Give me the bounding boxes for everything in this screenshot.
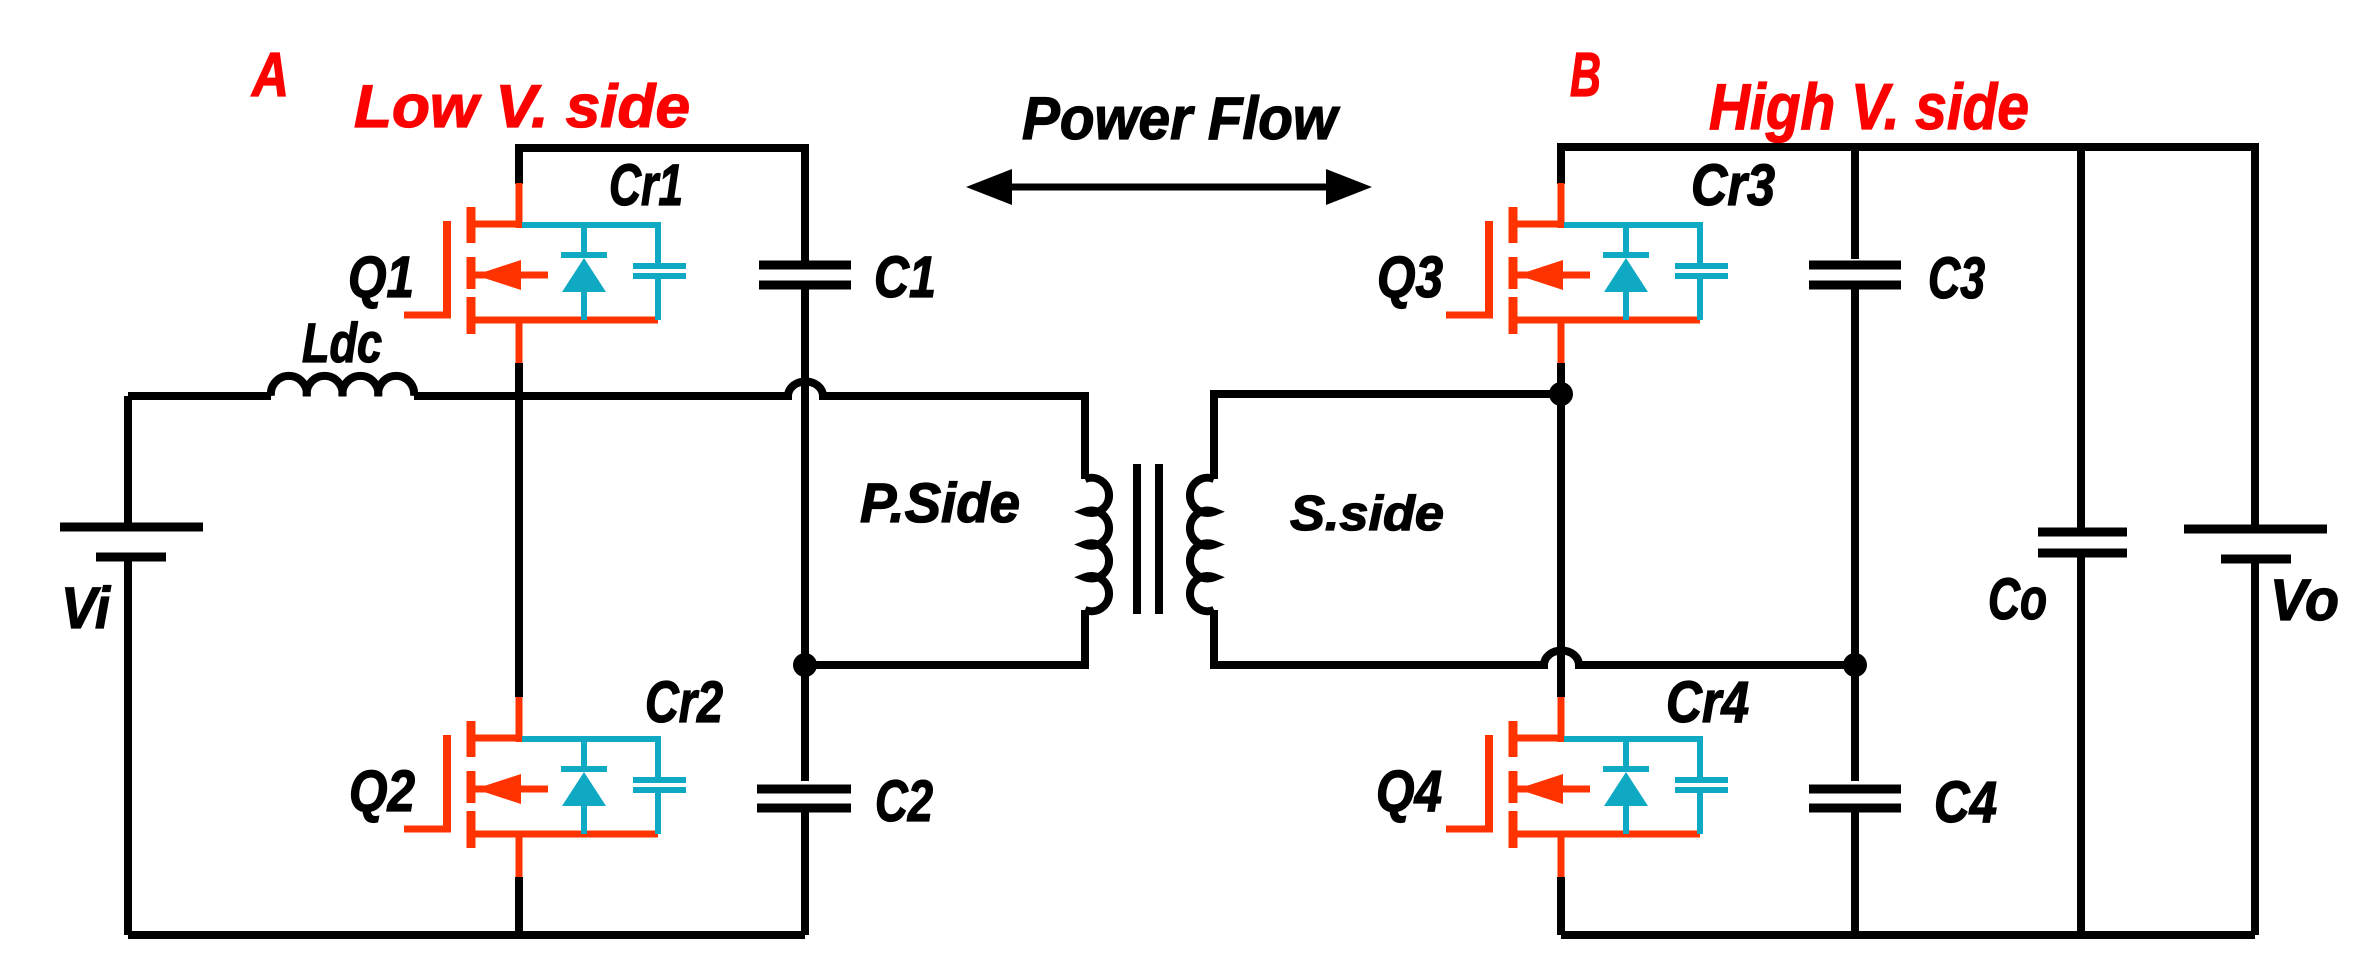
battery Vi: [60, 396, 203, 935]
wire right top rail: [1561, 147, 2255, 525]
svg-text:Ldc: Ldc: [302, 311, 382, 374]
capacitor C2: [757, 789, 851, 808]
capacitor C4: [1809, 789, 1901, 808]
wire mid rail left: [128, 392, 271, 400]
transistor Q3: [1446, 183, 1728, 363]
svg-text:B: B: [1570, 41, 1601, 110]
wire Q2 source to bottom rail: [515, 877, 523, 935]
transistor Q1: [404, 183, 686, 363]
svg-text:Cr2: Cr2: [645, 670, 723, 735]
svg-text:C1: C1: [874, 245, 936, 310]
svg-text:Vi: Vi: [61, 576, 112, 641]
inductor Ldc: [271, 376, 414, 396]
svg-text:Low V. side: Low V. side: [354, 73, 690, 140]
svg-text:Power Flow: Power Flow: [1022, 85, 1340, 152]
wire left top rail: [519, 148, 805, 261]
svg-text:Co: Co: [1988, 567, 2047, 632]
wire mid rail to primary (hop over C1-C2 branch): [414, 382, 1085, 480]
wire C1 to node, C2 branch: [801, 289, 809, 781]
transistor Q2: [404, 697, 686, 877]
svg-text:P.Side: P.Side: [860, 471, 1020, 534]
wire primary bottom: [805, 610, 1085, 665]
battery Vo: [2184, 529, 2327, 935]
wire C3 to node, C4 branch: [1851, 289, 1859, 781]
svg-text:Q1: Q1: [348, 245, 414, 310]
capacitor Co: [2038, 532, 2127, 553]
wire bottom rail right: [1561, 931, 2255, 939]
capacitor C1: [759, 265, 851, 285]
svg-text:Cr3: Cr3: [1691, 153, 1775, 218]
svg-text:C2: C2: [875, 769, 933, 834]
transformer primary winding: [1085, 478, 1109, 611]
svg-text:C3: C3: [1928, 246, 1985, 311]
svg-text:C4: C4: [1934, 770, 1997, 835]
wire bottom rail left: [128, 931, 805, 939]
capacitor C3: [1809, 265, 1901, 285]
wire Co branch top: [2077, 147, 2085, 528]
svg-text:S.side: S.side: [1290, 487, 1444, 541]
node primary-C1C2 junction: [793, 653, 817, 677]
svg-text:Q4: Q4: [1376, 759, 1442, 824]
svg-text:Cr4: Cr4: [1666, 670, 1749, 735]
wire Co to bottom rail: [2077, 557, 2085, 935]
wire C4 to bottom rail: [1851, 812, 1859, 935]
transformer core: [1137, 464, 1159, 614]
svg-text:High V. side: High V. side: [1709, 70, 2029, 143]
transistor Q4: [1446, 697, 1728, 877]
transformer secondary winding: [1190, 478, 1214, 611]
wire secondary bottom (hop over Q3-Q4 branch): [1214, 610, 1855, 665]
node secondary-C3C4 junction: [1843, 653, 1867, 677]
svg-text:Q2: Q2: [349, 759, 415, 824]
wire secondary top: [1214, 394, 1561, 479]
wire Q4 source to bottom rail: [1557, 877, 1565, 935]
power flow arrow: [966, 169, 1372, 205]
svg-text:Cr1: Cr1: [609, 153, 683, 218]
svg-text:Q3: Q3: [1377, 245, 1443, 310]
svg-text:Vo: Vo: [2270, 568, 2339, 633]
wire Q1-Q2 branch upper: [515, 363, 523, 697]
wire C3 branch top: [1851, 147, 1859, 259]
wire Q3-Q4 branch: [1557, 363, 1565, 697]
wire C2 to bottom rail: [801, 812, 809, 935]
svg-text:A: A: [250, 41, 289, 110]
node secondary-Q3Q4 junction: [1549, 382, 1573, 406]
